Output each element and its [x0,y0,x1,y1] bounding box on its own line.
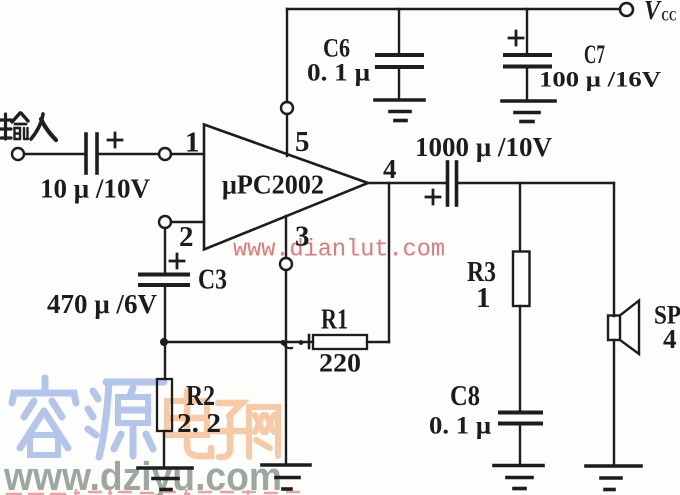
svg-text:V: V [644,0,662,25]
svg-text:3: 3 [295,221,310,253]
svg-text:4: 4 [383,154,397,184]
svg-text:C8: C8 [450,381,480,412]
svg-text:5: 5 [295,126,310,158]
svg-text:470 μ /6V: 470 μ /6V [47,289,157,319]
svg-text:220: 220 [319,349,361,378]
svg-text:10 μ /10V: 10 μ /10V [40,174,150,204]
svg-text:C7: C7 [584,40,605,69]
svg-text:4: 4 [663,324,677,354]
svg-text:www.dziyu.com: www.dziyu.com [3,455,282,495]
svg-text:www.dianlut.com: www.dianlut.com [233,237,445,264]
svg-text:100 μ /16V: 100 μ /16V [539,67,661,92]
svg-text:μPC2002: μPC2002 [222,170,324,200]
svg-text:0. 1 μ: 0. 1 μ [429,413,491,440]
svg-text:1: 1 [185,127,200,159]
svg-text:R1: R1 [321,305,348,336]
svg-text:2. 2: 2. 2 [177,408,221,438]
svg-text:1000 μ /10V: 1000 μ /10V [415,132,552,162]
svg-text:C3: C3 [198,265,227,296]
svg-text:CC: CC [662,9,677,25]
svg-text:C6: C6 [323,34,350,63]
svg-text:1: 1 [476,282,491,314]
svg-text:2: 2 [179,221,194,253]
svg-text:0. 1 μ: 0. 1 μ [307,60,370,87]
